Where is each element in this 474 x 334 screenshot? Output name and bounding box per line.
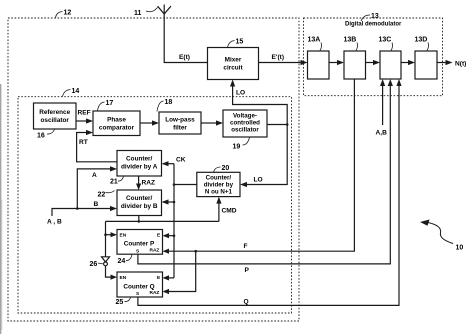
dashed box 12 (8, 18, 299, 321)
label 13B (344, 37, 358, 51)
svg-text:Reference: Reference (39, 109, 70, 116)
dashed box 13 digital demodulator (304, 18, 443, 96)
svg-text:Voltage-: Voltage- (233, 113, 257, 120)
svg-text:CK: CK (176, 157, 186, 164)
arrow F into counter Q RAZ (163, 289, 170, 294)
wire phase comparator to low-pass filter (140, 122, 153, 124)
wire REF (76, 120, 87, 122)
wire clock vertical (173, 164, 175, 278)
label 10 with squiggle arrow (420, 220, 463, 252)
svg-text:13D: 13D (415, 37, 428, 44)
wire 13B to 13C (366, 62, 375, 64)
wire E(t) antenna to mixer (164, 14, 207, 63)
svg-text:18: 18 (165, 99, 173, 106)
svg-text:20: 20 (222, 165, 230, 172)
svg-text:REF: REF (78, 110, 91, 117)
svg-text:13A: 13A (308, 37, 321, 44)
svg-text:Counter/: Counter/ (126, 156, 152, 163)
wire 13D to N(t) (437, 62, 447, 64)
counter Q 25 (117, 272, 163, 297)
arrow A into counter A (110, 166, 117, 171)
label 24 (118, 255, 133, 265)
wire CMD horizontal (106, 220, 219, 222)
low-pass filter 18 (159, 112, 201, 134)
wire CK to counter A (168, 163, 174, 165)
svg-text:Phase: Phase (107, 117, 126, 124)
svg-text:CMD: CMD (222, 208, 237, 215)
wire vco output branch (267, 124, 287, 126)
svg-text:11: 11 (134, 10, 142, 17)
svg-text:LO: LO (236, 90, 245, 97)
counter P 24 (117, 230, 163, 255)
counter divider by A 21 (117, 151, 162, 177)
svg-text:Low-pass: Low-pass (165, 117, 195, 124)
svg-text:13B: 13B (344, 37, 357, 44)
mixer text (39, 57, 260, 291)
label 18 (157, 99, 172, 112)
wire clock net from divider N (174, 184, 197, 186)
wire EN chain vertical (105, 221, 107, 256)
arrowheads (86, 60, 453, 294)
svg-text:19: 19 (233, 144, 241, 151)
svg-text:filter: filter (173, 125, 187, 132)
wire F from 13B to RAZ of P (169, 79, 355, 251)
arrow 13C to 13D (408, 60, 415, 65)
arrow B into counter B (110, 206, 117, 211)
counter P pin labels (120, 233, 162, 298)
wire EN to counter P (106, 234, 111, 236)
arrow into low-pass filter (152, 120, 159, 125)
label 21 (110, 177, 124, 186)
svg-text:RT: RT (79, 139, 88, 146)
junction vco output (286, 123, 289, 126)
arrow F into counter P RAZ (163, 249, 170, 254)
junction clock to counter P (173, 234, 176, 237)
counter divider by N ou N+1 20 (197, 172, 240, 196)
junction EN branch (104, 233, 107, 236)
wire low-pass filter to vco (201, 122, 217, 124)
svg-text:15: 15 (236, 39, 244, 46)
label 13 (361, 13, 379, 21)
wire 13A to 13B (329, 62, 338, 64)
svg-text:Mixer: Mixer (225, 57, 242, 64)
svg-text:16: 16 (37, 133, 45, 140)
wire CMD counter B output (138, 216, 140, 222)
reference oscillator 16 (34, 103, 77, 129)
wire RAZ counter A to counter B (138, 176, 140, 184)
label 13D (415, 37, 429, 51)
svg-text:divider by A: divider by A (121, 164, 158, 171)
arrow EN into counter Q (111, 275, 118, 280)
wire RT counter A to phase comparator (77, 133, 117, 162)
label 11 (134, 8, 158, 18)
label 20 (214, 165, 230, 172)
arrow LO into divider N (240, 182, 247, 187)
label 26 (90, 261, 103, 268)
block 13B (344, 51, 366, 79)
svg-text:E'(t): E'(t) (272, 54, 285, 61)
wire clock to counter P E (169, 235, 175, 237)
phase comparator 17 (93, 111, 140, 136)
label 22 (98, 191, 115, 199)
svg-text:12: 12 (64, 10, 72, 17)
svg-text:divider by: divider by (204, 182, 234, 189)
wire inverter to counter Q EN (106, 266, 111, 277)
svg-text:14: 14 (72, 88, 80, 95)
svg-text:P: P (245, 267, 250, 274)
arrow E'(t) into 13A (301, 60, 308, 65)
svg-text:22: 22 (98, 192, 106, 199)
wire A branch (77, 169, 110, 209)
svg-text:17: 17 (106, 100, 114, 107)
arrow 13D to N(t) (446, 60, 453, 65)
arrow A,B into 13C (380, 79, 385, 86)
wire F branch to RAZ of Q (169, 251, 196, 291)
junction counter B output (138, 220, 141, 223)
arrow REF into phase comparator (86, 118, 93, 123)
label 15 (228, 39, 244, 48)
label 13C (379, 37, 393, 51)
label 19 (233, 138, 250, 151)
inverter 26 (102, 257, 110, 266)
antenna 11 (158, 5, 171, 15)
svg-text:E(t): E(t) (179, 54, 190, 61)
junction F branch (194, 250, 197, 253)
wire 13C to 13D (401, 62, 409, 64)
svg-text:13: 13 (371, 13, 379, 20)
svg-text:B: B (94, 201, 99, 208)
svg-text:F: F (244, 243, 248, 250)
svg-text:circuit: circuit (223, 65, 243, 72)
junction clock to counter B (173, 201, 176, 204)
svg-text:Counter Q: Counter Q (123, 284, 154, 291)
svg-text:21: 21 (110, 179, 118, 186)
arrow clock into counter P E (163, 233, 170, 238)
svg-text:divider by B: divider by B (121, 203, 158, 210)
arrow clock into counter Q E (163, 275, 170, 280)
arrow Q into 13C (396, 79, 401, 86)
wire A,B input (52, 209, 111, 217)
arrow 13B to 13C (373, 60, 380, 65)
svg-text:RAZ: RAZ (142, 180, 156, 187)
arrow CMD into divider N (216, 197, 221, 204)
wire CMD vertical to divider N (218, 203, 220, 221)
svg-text:RAZ: RAZ (150, 248, 160, 254)
arrow EN into counter P (111, 232, 118, 237)
arrow clock into counter B (162, 199, 169, 204)
label 25 (116, 298, 131, 307)
arrow into vco (216, 120, 223, 125)
junction clock net (173, 183, 176, 186)
svg-text:EN: EN (120, 233, 127, 239)
svg-text:Counter/: Counter/ (206, 175, 232, 182)
block 13D (415, 51, 437, 79)
block 13C (380, 51, 401, 79)
arrow LO into mixer (230, 80, 235, 87)
arrow P into 13C (388, 79, 393, 86)
counter divider by B 22 (117, 190, 162, 216)
arrow CK into counter A (162, 161, 169, 166)
label 17 (98, 100, 114, 111)
svg-text:A , B: A , B (47, 219, 62, 226)
svg-text:oscillator: oscillator (40, 117, 69, 124)
arrow 13A to 13B (337, 60, 344, 65)
label 16 (37, 130, 55, 140)
svg-text:26: 26 (90, 261, 98, 268)
wire clock to counter B (168, 201, 174, 203)
svg-text:Counter/: Counter/ (126, 195, 152, 202)
svg-text:RAZ: RAZ (150, 290, 160, 296)
svg-text:Counter P: Counter P (124, 241, 155, 248)
block 13A (308, 51, 330, 79)
wire A,B stub to 13C (382, 86, 384, 126)
svg-text:oscillator: oscillator (231, 127, 259, 134)
voltage-controlled oscillator 19 (223, 110, 267, 137)
label 12 (56, 10, 72, 18)
junction A,B split (76, 207, 79, 210)
arrow RT into phase comparator (86, 130, 93, 135)
svg-text:LO: LO (254, 177, 263, 184)
wire clock to counter Q E (169, 277, 175, 279)
label 13A (308, 37, 322, 51)
svg-text:Digital demodulator: Digital demodulator (345, 22, 402, 28)
svg-text:EN: EN (120, 275, 127, 281)
mixer circuit 15 (208, 48, 259, 80)
junction dots (76, 123, 289, 252)
svg-text:A,B: A,B (376, 130, 388, 137)
wire E'(t) mixer to 13A (259, 62, 302, 64)
svg-text:N(t): N(t) (455, 61, 466, 68)
scan edge artifact (0, 84, 2, 334)
svg-text:25: 25 (116, 299, 124, 306)
label 14 (63, 88, 80, 97)
wire LO vco to mixer and to divider N (233, 87, 288, 185)
svg-text:A: A (92, 172, 97, 179)
svg-text:controlled: controlled (230, 120, 260, 127)
svg-text:10: 10 (456, 245, 464, 252)
svg-text:comparator: comparator (99, 125, 135, 132)
wire P output (138, 86, 390, 264)
svg-text:24: 24 (118, 258, 126, 265)
wire Q output (138, 86, 399, 306)
svg-text:13C: 13C (379, 37, 392, 44)
arrow RAZ into counter B (136, 184, 141, 191)
svg-text:N ou N+1: N ou N+1 (205, 189, 233, 196)
svg-text:Q: Q (244, 299, 249, 306)
dashed box 14 (18, 97, 292, 313)
